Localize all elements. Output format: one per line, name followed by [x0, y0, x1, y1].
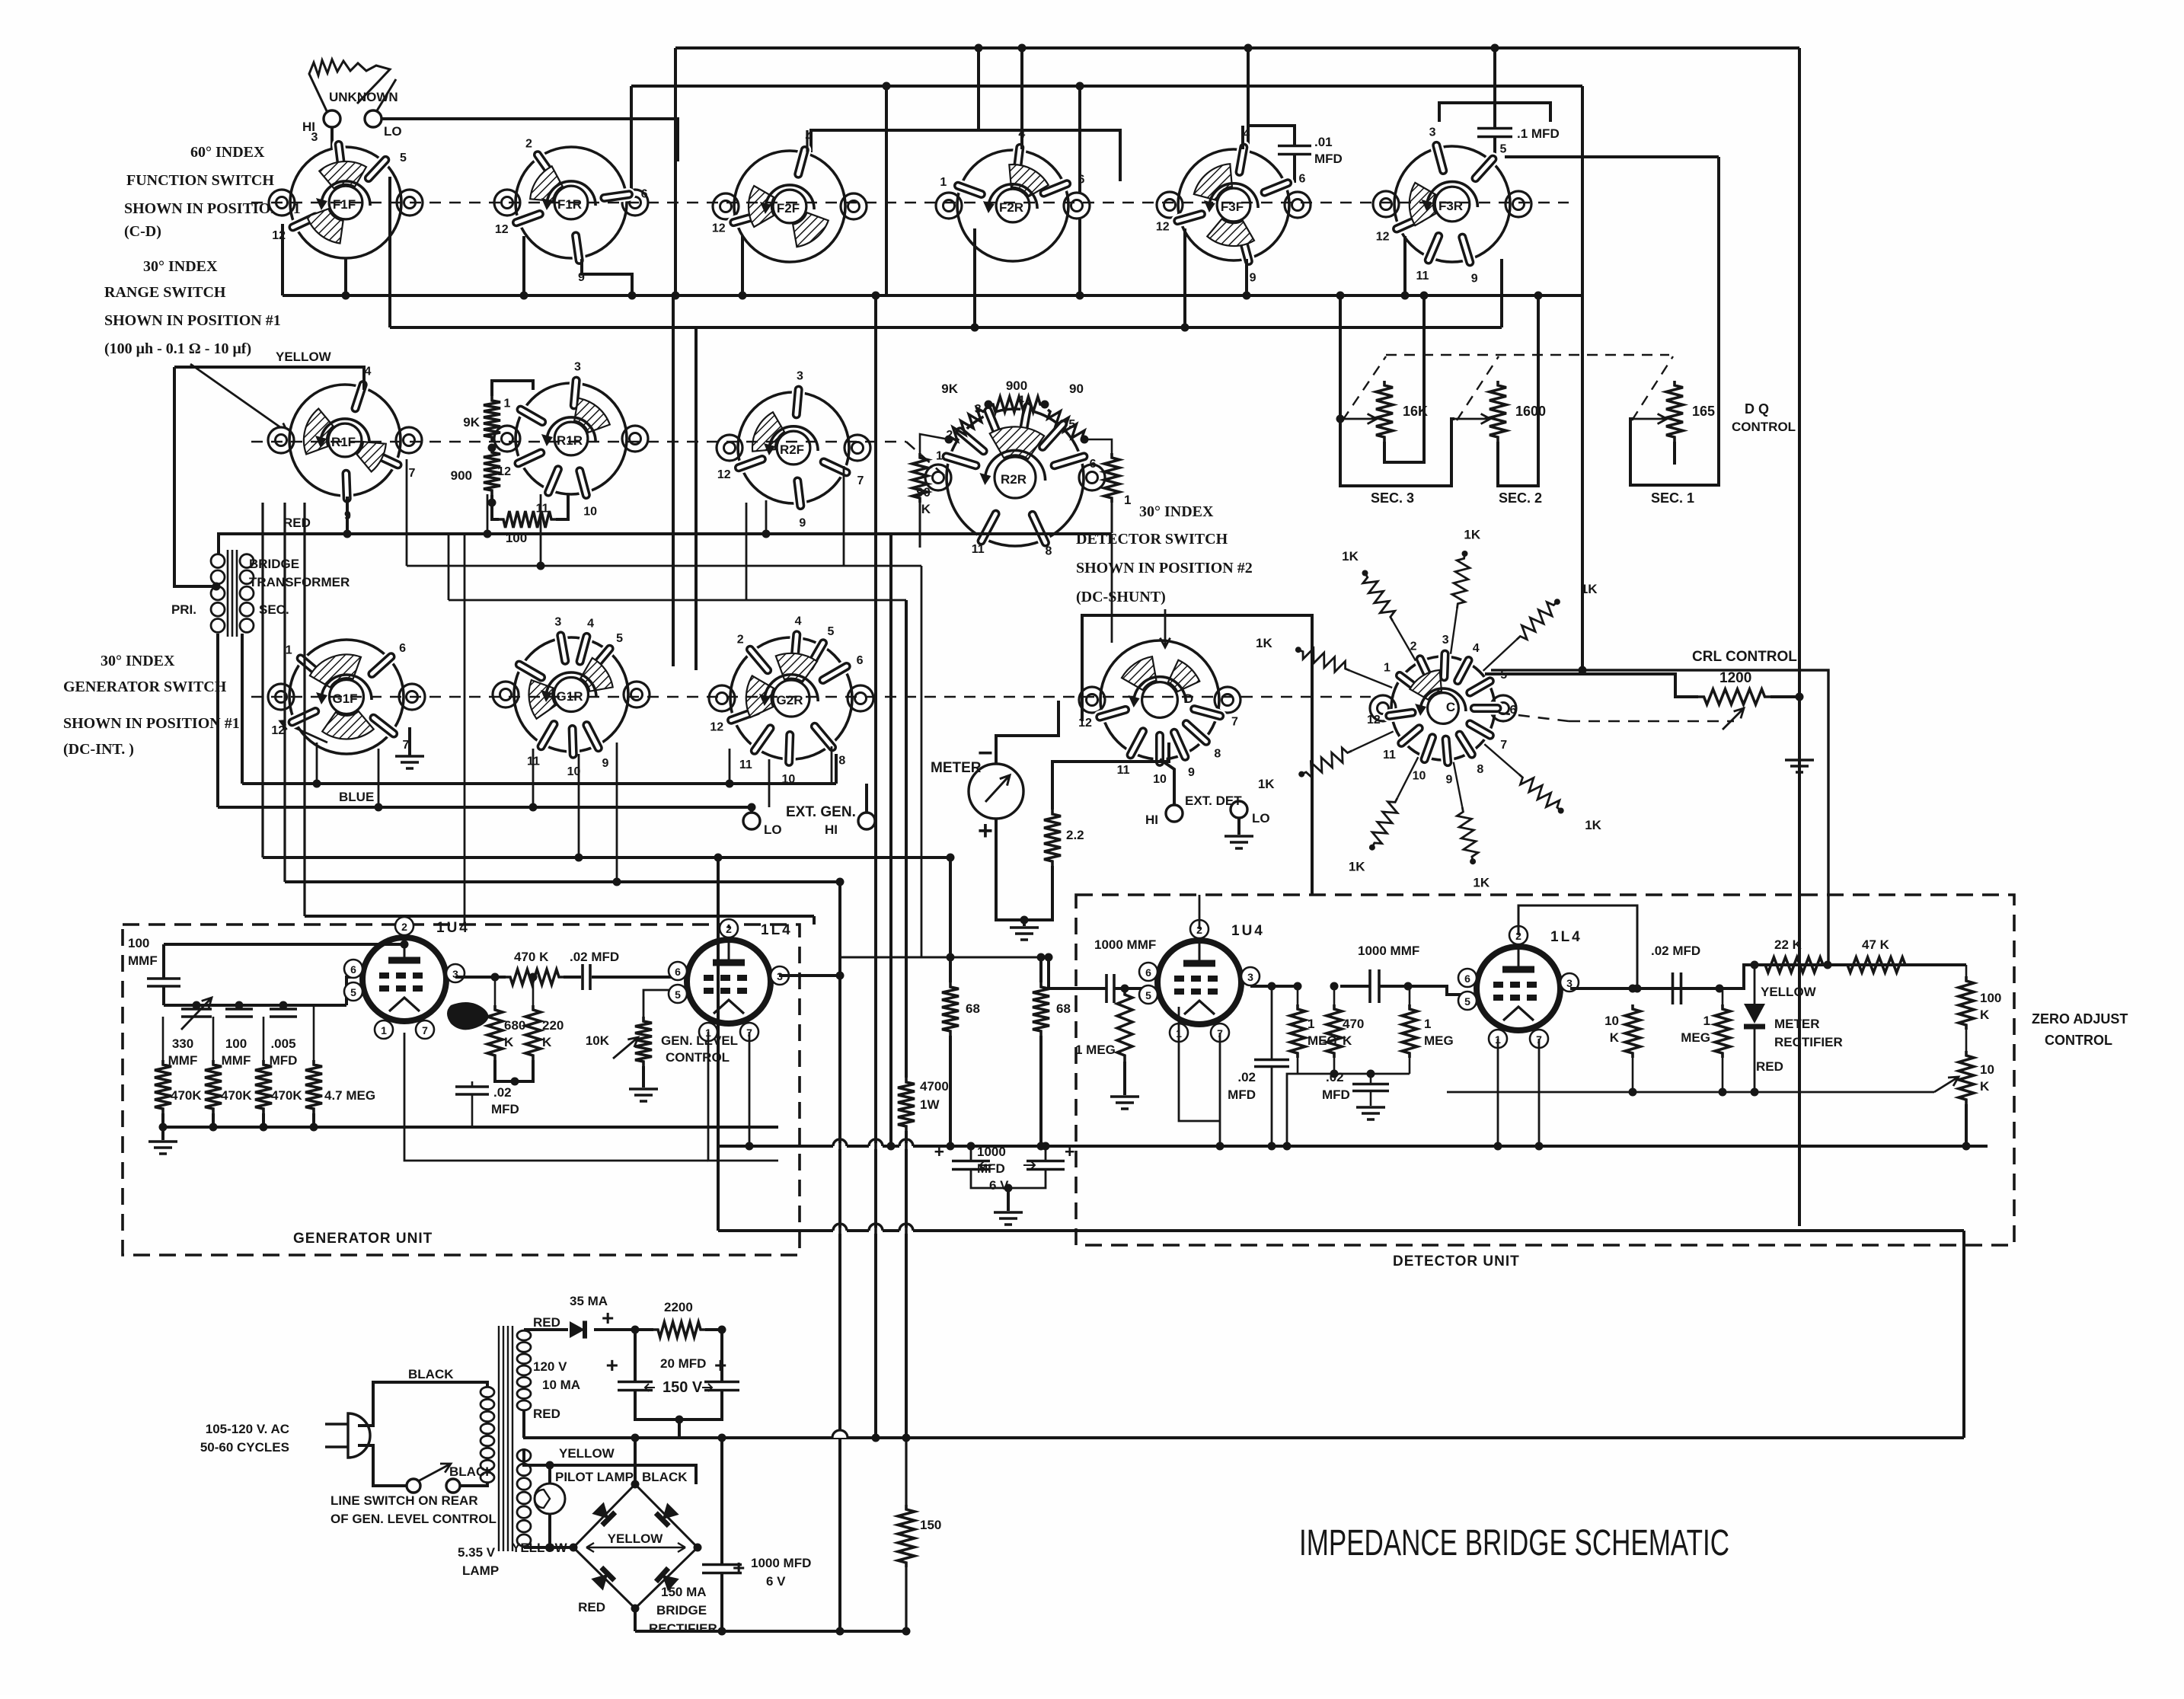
- svg-text:EXT. GEN.: EXT. GEN.: [786, 804, 856, 820]
- wire 10K gnd lead: [642, 1066, 645, 1087]
- wire F1R9 down: [582, 259, 632, 295]
- wire bus to bridge top: [634, 1438, 637, 1484]
- wire F2R4 up: [1020, 48, 1023, 149]
- capacitor .01 MFD: [1278, 146, 1311, 155]
- svg-text:K: K: [542, 1035, 552, 1049]
- wire G1F7 down: [378, 749, 380, 807]
- svg-text:RECTIFIER: RECTIFIER: [1774, 1035, 1843, 1049]
- svg-text:1: 1: [504, 398, 511, 410]
- capacitor 1000 MFD 6V (a): [952, 1161, 990, 1170]
- resistor 16K: [1376, 381, 1393, 442]
- svg-text:K: K: [1980, 1079, 1990, 1094]
- rotary switch F1R: [494, 138, 648, 285]
- bus det y1434: [1447, 1091, 1934, 1094]
- svg-text:1K: 1K: [1256, 636, 1272, 650]
- svg-text:11: 11: [1416, 270, 1429, 283]
- svg-text:EXT. DET: EXT. DET: [1185, 794, 1242, 808]
- svg-text:1K: 1K: [1585, 818, 1601, 832]
- wire 2.2 top to D10: [1052, 743, 1169, 810]
- svg-text:RED: RED: [1756, 1059, 1783, 1074]
- wire G2R8 down: [831, 746, 833, 784]
- wire rectifier down: [1754, 1027, 1756, 1092]
- wire red / bus y701: [219, 534, 1112, 554]
- wire LO to gnd: [1237, 818, 1240, 835]
- wire tube2 pin7 down: [749, 1032, 751, 1146]
- resistor 680K: [487, 1005, 503, 1060]
- dashed gang line row1: [251, 202, 1569, 204]
- bus mid y1126: [263, 856, 950, 859]
- svg-text:3: 3: [554, 616, 561, 629]
- rotary switch F3F: [1156, 128, 1311, 285]
- wire 470K3 top: [263, 1017, 265, 1060]
- svg-text:7: 7: [422, 1024, 428, 1036]
- wire sec bottom down: [241, 634, 244, 784]
- svg-text:12: 12: [495, 223, 509, 236]
- wire D frame: [1082, 615, 1312, 895]
- svg-text:PILOT LAMP: PILOT LAMP: [555, 1470, 634, 1484]
- svg-text:6: 6: [399, 642, 406, 655]
- svg-text:MFD: MFD: [1322, 1087, 1350, 1102]
- wire sec top to diode: [524, 1328, 568, 1331]
- wire trunk x884: [672, 295, 675, 666]
- annotation: detector switch note: [1076, 503, 1253, 605]
- svg-text:METER: METER: [1774, 1017, 1820, 1031]
- svg-text:1K: 1K: [1349, 860, 1365, 874]
- resistor 90 (R2R): [1048, 410, 1084, 439]
- wire LO stub: [750, 807, 753, 813]
- svg-text:BRIDGE: BRIDGE: [249, 557, 299, 571]
- svg-text:4700: 4700: [920, 1079, 949, 1094]
- wire yellow down to pri: [174, 367, 216, 586]
- wire x610 to gen box: [464, 533, 466, 925]
- diode bridge SE: [656, 1568, 680, 1592]
- ground right border: [1798, 697, 1801, 758]
- wire HI to F1F lug3: [330, 127, 334, 149]
- dashed linkage DQ: [1386, 354, 1669, 356]
- svg-text:CRL CONTROL: CRL CONTROL: [1692, 649, 1797, 665]
- wire to .01MFD: [1248, 126, 1295, 145]
- svg-text:5: 5: [828, 625, 835, 638]
- wire trunk x914: [694, 327, 698, 670]
- svg-text:11: 11: [1117, 764, 1130, 777]
- wire det tube1 pins down: [1179, 1007, 1220, 1121]
- svg-text:6: 6: [857, 654, 864, 667]
- bus L2: [631, 85, 1582, 88]
- svg-text:SEC. 2: SEC. 2: [1499, 490, 1542, 506]
- svg-text:10: 10: [1980, 1062, 1994, 1077]
- bus mid y1029: [242, 782, 836, 785]
- svg-text:3: 3: [574, 360, 581, 373]
- wire left vert x374: [283, 503, 286, 882]
- wire tube1 pin2 up: [403, 925, 406, 944]
- wire cap b top: [720, 1330, 723, 1381]
- svg-text:.1 MFD: .1 MFD: [1517, 126, 1560, 141]
- wire tube2 pin3 out: [779, 974, 840, 977]
- svg-text:1U4: 1U4: [436, 920, 470, 936]
- svg-text:1000 MFD: 1000 MFD: [751, 1556, 811, 1570]
- wire pri bottom down: [216, 634, 219, 807]
- dashed gang line row3: [251, 696, 1371, 698]
- terminal EXT DET HI: [1166, 805, 1183, 822]
- capacitor .1 MFD: [1477, 129, 1512, 137]
- svg-text:100: 100: [128, 936, 149, 950]
- svg-text:K: K: [1980, 1008, 1990, 1022]
- bus y2142: [635, 1630, 906, 1633]
- svg-text:1: 1: [1308, 1017, 1314, 1031]
- resistor 470K (3): [255, 1060, 272, 1113]
- rotary switch F1F: [269, 131, 423, 258]
- svg-text:RECTIFIER: RECTIFIER: [649, 1621, 717, 1636]
- svg-text:5: 5: [400, 152, 407, 164]
- bus y1888: [523, 1436, 1964, 1439]
- svg-text:6: 6: [1090, 458, 1097, 471]
- bus y1505: [718, 1145, 1988, 1148]
- svg-text:BLACK: BLACK: [408, 1367, 454, 1381]
- svg-text:HI: HI: [825, 822, 838, 837]
- bus mid y1158: [285, 880, 840, 883]
- wire HI stub: [865, 784, 868, 813]
- wire F3R9 down: [1500, 259, 1503, 327]
- wire caps bottom: [635, 1391, 722, 1420]
- svg-text:MEG: MEG: [1424, 1033, 1454, 1048]
- wire 4.7MEG top: [313, 1005, 315, 1060]
- svg-text:SEC. 1: SEC. 1: [1651, 490, 1694, 506]
- svg-text:IMPEDANCE BRIDGE SCHEMATIC: IMPEDANCE BRIDGE SCHEMATIC: [1299, 1523, 1729, 1563]
- wire G1R11 down: [532, 749, 535, 807]
- wire F1R12 down: [522, 236, 525, 295]
- resistor 470K coupling: [506, 969, 564, 985]
- svg-text:165: 165: [1692, 404, 1715, 419]
- svg-text:RED: RED: [533, 1315, 560, 1330]
- terminal LO (unknown): [365, 110, 382, 127]
- svg-text:K: K: [1343, 1033, 1352, 1048]
- bus y1616: [718, 1229, 1964, 1232]
- svg-text:11: 11: [1383, 749, 1396, 762]
- wire F2F4 to F2R6: [811, 130, 1120, 181]
- svg-text:12: 12: [1078, 717, 1092, 730]
- svg-text:8: 8: [1214, 747, 1221, 760]
- wire cap a top: [634, 1330, 637, 1381]
- svg-text:7: 7: [408, 467, 415, 480]
- svg-text:1600: 1600: [1515, 404, 1546, 419]
- resistor 2200: [653, 1322, 705, 1337]
- svg-text:150 V: 150 V: [663, 1379, 703, 1396]
- svg-text:470K: 470K: [221, 1088, 252, 1103]
- wire trunk x1418: [1078, 86, 1081, 295]
- wire det tube2 pin2 loop: [1518, 905, 1637, 988]
- svg-text:F3R: F3R: [1438, 199, 1463, 213]
- svg-text:YELLOW: YELLOW: [1761, 985, 1817, 999]
- rotary switch R1F: [268, 366, 422, 522]
- svg-text:SHOWN IN POSITION #1: SHOWN IN POSITION #1: [104, 312, 281, 329]
- wire x1248 to 68 res: [949, 857, 952, 982]
- svg-text:9: 9: [602, 757, 608, 770]
- resistor 100: [499, 511, 556, 528]
- svg-text:+: +: [934, 1142, 944, 1161]
- svg-text:6: 6: [1510, 704, 1517, 717]
- wire caps bottom join: [971, 1170, 1046, 1188]
- resistor 1 MEG (det 3): [1402, 1004, 1417, 1058]
- svg-text:BLACK: BLACK: [642, 1470, 688, 1484]
- svg-text:12: 12: [1156, 221, 1170, 234]
- svg-text:LINE SWITCH ON REAR: LINE SWITCH ON REAR: [330, 1493, 478, 1508]
- wire drop from L1: [977, 48, 980, 130]
- wire right border: [1798, 48, 1801, 1226]
- bus y1257: [840, 956, 1049, 959]
- svg-text:7: 7: [1500, 739, 1507, 752]
- capacitor .02 MFD (det b): [1352, 1084, 1389, 1091]
- bus y743: [407, 565, 921, 567]
- wire det join down: [1287, 1074, 1298, 1146]
- wire trunk x1190 lower: [905, 1131, 908, 1438]
- svg-text:6: 6: [1298, 173, 1305, 186]
- wire 68R down: [1039, 1036, 1043, 1146]
- wire 100 to R1R10: [556, 495, 568, 519]
- svg-text:10K: 10K: [586, 1033, 610, 1048]
- svg-text:SHOWN IN POSITION #2: SHOWN IN POSITION #2: [1076, 560, 1253, 576]
- arrow to detector switch D: [1160, 609, 1170, 647]
- svg-text:LAMP: LAMP: [462, 1563, 499, 1578]
- wire to det tube2 pin6: [1408, 986, 1474, 995]
- svg-text:YELLOW: YELLOW: [608, 1531, 664, 1546]
- svg-text:105-120 V. AC: 105-120 V. AC: [206, 1422, 289, 1436]
- ground generator: [148, 1142, 177, 1154]
- ink blob artifact: [447, 1002, 488, 1030]
- wire LO to F1R lug2: [382, 119, 678, 161]
- terminal EXT GEN LO: [743, 813, 760, 829]
- wire G1R10 down: [578, 754, 580, 857]
- svg-text:K: K: [1610, 1030, 1620, 1045]
- svg-text:OF GEN. LEVEL CONTROL: OF GEN. LEVEL CONTROL: [330, 1512, 497, 1526]
- svg-text:.02 MFD: .02 MFD: [570, 950, 619, 964]
- diode 35 MA: [570, 1321, 585, 1338]
- wire 1MEG gnd lead: [1123, 1062, 1126, 1095]
- wire F3F4 up: [1241, 126, 1244, 149]
- svg-text:9: 9: [1250, 272, 1256, 285]
- svg-text:1U4: 1U4: [1231, 923, 1265, 939]
- svg-text:LO: LO: [1252, 811, 1270, 826]
- capacitor 20 MFD (a): [618, 1382, 653, 1391]
- svg-text:METER: METER: [931, 760, 982, 776]
- bus mid y1203: [305, 915, 814, 918]
- resistor 100 K zero adjust: [1959, 976, 1974, 1030]
- svg-text:MFD: MFD: [491, 1102, 519, 1116]
- wire G2R10 down: [768, 759, 771, 807]
- svg-text:BRIDGE: BRIDGE: [656, 1603, 707, 1618]
- svg-text:MFD: MFD: [1314, 152, 1343, 166]
- rotary switch F3R: [1373, 126, 1531, 285]
- wire det tube1 pin3 out: [1250, 985, 1298, 988]
- wire zero adjust down: [1965, 1104, 1968, 1146]
- wire hops: [832, 1430, 848, 1438]
- svg-text:SEC. 3: SEC. 3: [1371, 490, 1414, 506]
- bus row1 lower B: [390, 326, 1502, 329]
- wire 680K/220K join: [495, 1060, 533, 1081]
- bus gen bottom y1480: [163, 1126, 778, 1129]
- resistor 4700 1W: [898, 1078, 915, 1131]
- wire to tube1 pin6: [346, 977, 353, 1005]
- label YELLOW arrows: [586, 1543, 685, 1552]
- svg-text:10: 10: [1413, 770, 1426, 783]
- vacuum tube 1U4 (detector): [1139, 920, 1265, 1042]
- wire 470K2 top: [212, 1017, 215, 1060]
- wire CRL right: [1771, 695, 1799, 698]
- svg-text:6: 6: [1464, 972, 1470, 985]
- svg-text:+: +: [978, 816, 993, 845]
- dashed gang link to R2R: [906, 442, 947, 477]
- svg-text:4.7 MEG: 4.7 MEG: [324, 1088, 375, 1103]
- wire L2 left drop: [630, 86, 633, 190]
- wire D9 to HI: [1160, 759, 1174, 805]
- svg-text:9K: 9K: [941, 382, 958, 396]
- svg-text:90: 90: [916, 485, 931, 500]
- generator unit dashed box: [123, 925, 800, 1255]
- wire to gnd: [1007, 1188, 1010, 1211]
- svg-text:12: 12: [717, 468, 731, 481]
- resistor 9K: [484, 396, 500, 442]
- ground gen level: [629, 1089, 658, 1101]
- wire 10K top: [643, 990, 677, 1017]
- wire ps cap bottom: [720, 1573, 723, 1631]
- svg-text:1 MEG: 1 MEG: [1075, 1043, 1116, 1057]
- wire L1 left drop: [674, 48, 677, 295]
- svg-text:MFD: MFD: [1228, 1087, 1256, 1102]
- svg-text:1000: 1000: [977, 1145, 1006, 1159]
- svg-text:1K: 1K: [1258, 777, 1275, 791]
- svg-text:5: 5: [1499, 143, 1506, 156]
- wire F3R lug5 bus: [1505, 155, 1719, 158]
- diode bridge SW: [591, 1567, 615, 1591]
- resistor 22K: [1761, 957, 1828, 972]
- svg-text:120 V: 120 V: [533, 1359, 567, 1374]
- svg-text:8: 8: [1477, 763, 1483, 776]
- svg-text:68: 68: [966, 1001, 980, 1016]
- bridge rectifier: [570, 1480, 702, 1613]
- resistor 470K (1): [155, 1060, 171, 1113]
- svg-text:1000 MMF: 1000 MMF: [1094, 937, 1156, 952]
- svg-text:100: 100: [1980, 991, 2001, 1005]
- svg-text:6: 6: [1078, 174, 1084, 187]
- svg-text:9: 9: [1471, 273, 1478, 286]
- wire L1 to F3F lug4: [1247, 48, 1250, 152]
- wire F3R12 down: [1403, 236, 1407, 295]
- svg-text:G1F: G1F: [332, 691, 357, 706]
- svg-text:F1F: F1F: [333, 197, 356, 212]
- svg-text:YELLOW: YELLOW: [559, 1446, 615, 1461]
- SEC.3 wiring loop: [1336, 415, 1345, 423]
- svg-text:YELLOW: YELLOW: [276, 350, 332, 364]
- wire F2F4 up: [806, 130, 808, 152]
- wire plug bottom: [358, 1445, 407, 1486]
- wire R2F9 down: [765, 500, 768, 534]
- wire trunk x1164: [885, 86, 888, 295]
- svg-text:900: 900: [451, 468, 472, 483]
- wire 100MMF top: [162, 944, 165, 979]
- svg-text:30° INDEX: 30° INDEX: [1139, 503, 1214, 520]
- vacuum tube 1L4 (generator): [669, 919, 793, 1041]
- wire diode to 2200: [594, 1328, 653, 1331]
- terminal EXT DET LO: [1231, 801, 1247, 818]
- svg-text:MMF: MMF: [168, 1053, 198, 1068]
- svg-text:4: 4: [795, 615, 802, 628]
- resistor 10 K zero adjust: [1959, 1051, 1974, 1104]
- wire yellow: [174, 367, 364, 390]
- wire F3F9 down: [1245, 259, 1248, 295]
- svg-text:3: 3: [1247, 971, 1253, 983]
- detector unit dashed box: [1076, 895, 2014, 1245]
- svg-text:ZERO ADJUST: ZERO ADJUST: [2032, 1011, 2128, 1027]
- resistor 1 MEG (det 2): [1290, 1004, 1305, 1058]
- wire to gnd: [1023, 920, 1026, 926]
- svg-text:R1R: R1R: [557, 433, 583, 448]
- svg-text:.02: .02: [1326, 1070, 1344, 1084]
- annotation: function switch note: [124, 144, 301, 240]
- wire trunk x1210: [921, 566, 923, 957]
- svg-text:8: 8: [1046, 545, 1052, 557]
- svg-text:90: 90: [1069, 382, 1084, 396]
- capacitor 1000 MFD 6V (b): [1027, 1161, 1065, 1170]
- wire 1 bottom: [1111, 503, 1113, 533]
- wire x943 down: [717, 857, 720, 1231]
- rotary switch F2R: [936, 128, 1090, 261]
- meter M: [931, 739, 1023, 845]
- svg-text:PRI.: PRI.: [171, 602, 196, 617]
- svg-text:150 MA: 150 MA: [661, 1585, 707, 1599]
- wire right drop x2579: [1962, 1231, 1965, 1438]
- svg-text:330: 330: [172, 1036, 193, 1051]
- SEC.1 wiring loop: [1630, 157, 1719, 485]
- svg-text:3: 3: [311, 131, 318, 144]
- svg-text:1W: 1W: [920, 1097, 940, 1112]
- svg-text:1: 1: [1124, 493, 1131, 507]
- svg-text:1200: 1200: [1719, 670, 1751, 686]
- svg-text:MMF: MMF: [128, 953, 158, 968]
- resistor 900 (R2R): [988, 397, 1045, 412]
- wire 68L down: [949, 1036, 952, 1146]
- svg-text:D Q: D Q: [1745, 401, 1769, 417]
- wire lamp bottom: [548, 1514, 551, 1547]
- wire plug top: [358, 1382, 487, 1426]
- wire sec2 bottom to bridge: [524, 1546, 573, 1549]
- detector local join y1410: [1298, 1073, 1410, 1075]
- wire F2R1 down: [973, 228, 976, 327]
- svg-text:6: 6: [350, 963, 356, 976]
- svg-text:.02: .02: [1237, 1070, 1256, 1084]
- resistor 1 (R2R): [1104, 453, 1119, 503]
- resistor 1 MEG (det input): [1117, 988, 1132, 1062]
- wire trunk x1170: [889, 534, 892, 1146]
- variable capacitor 330 MMF: [181, 1009, 212, 1017]
- resistor 470K (2): [205, 1060, 222, 1113]
- wire tube2 pin1 down: [708, 1032, 778, 1161]
- svg-text:50-60 CYCLES: 50-60 CYCLES: [200, 1440, 289, 1455]
- svg-text:5: 5: [1464, 995, 1470, 1008]
- ground det b: [1356, 1107, 1385, 1119]
- svg-text:K: K: [504, 1035, 514, 1049]
- svg-text:470: 470: [1343, 1017, 1364, 1031]
- svg-text:7: 7: [1231, 715, 1238, 728]
- svg-text:11: 11: [972, 543, 985, 556]
- rotary switch D: [1078, 640, 1240, 786]
- wire C to detector 22K/47K junction: [1491, 670, 1828, 965]
- svg-text:RED: RED: [283, 516, 311, 530]
- svg-text:1K: 1K: [1342, 549, 1359, 564]
- svg-text:2: 2: [737, 633, 744, 646]
- wire meter plus down: [996, 819, 1024, 920]
- svg-text:6: 6: [1145, 966, 1151, 979]
- resistor 68 (right): [1033, 982, 1049, 1036]
- svg-text:10 MA: 10 MA: [542, 1378, 580, 1392]
